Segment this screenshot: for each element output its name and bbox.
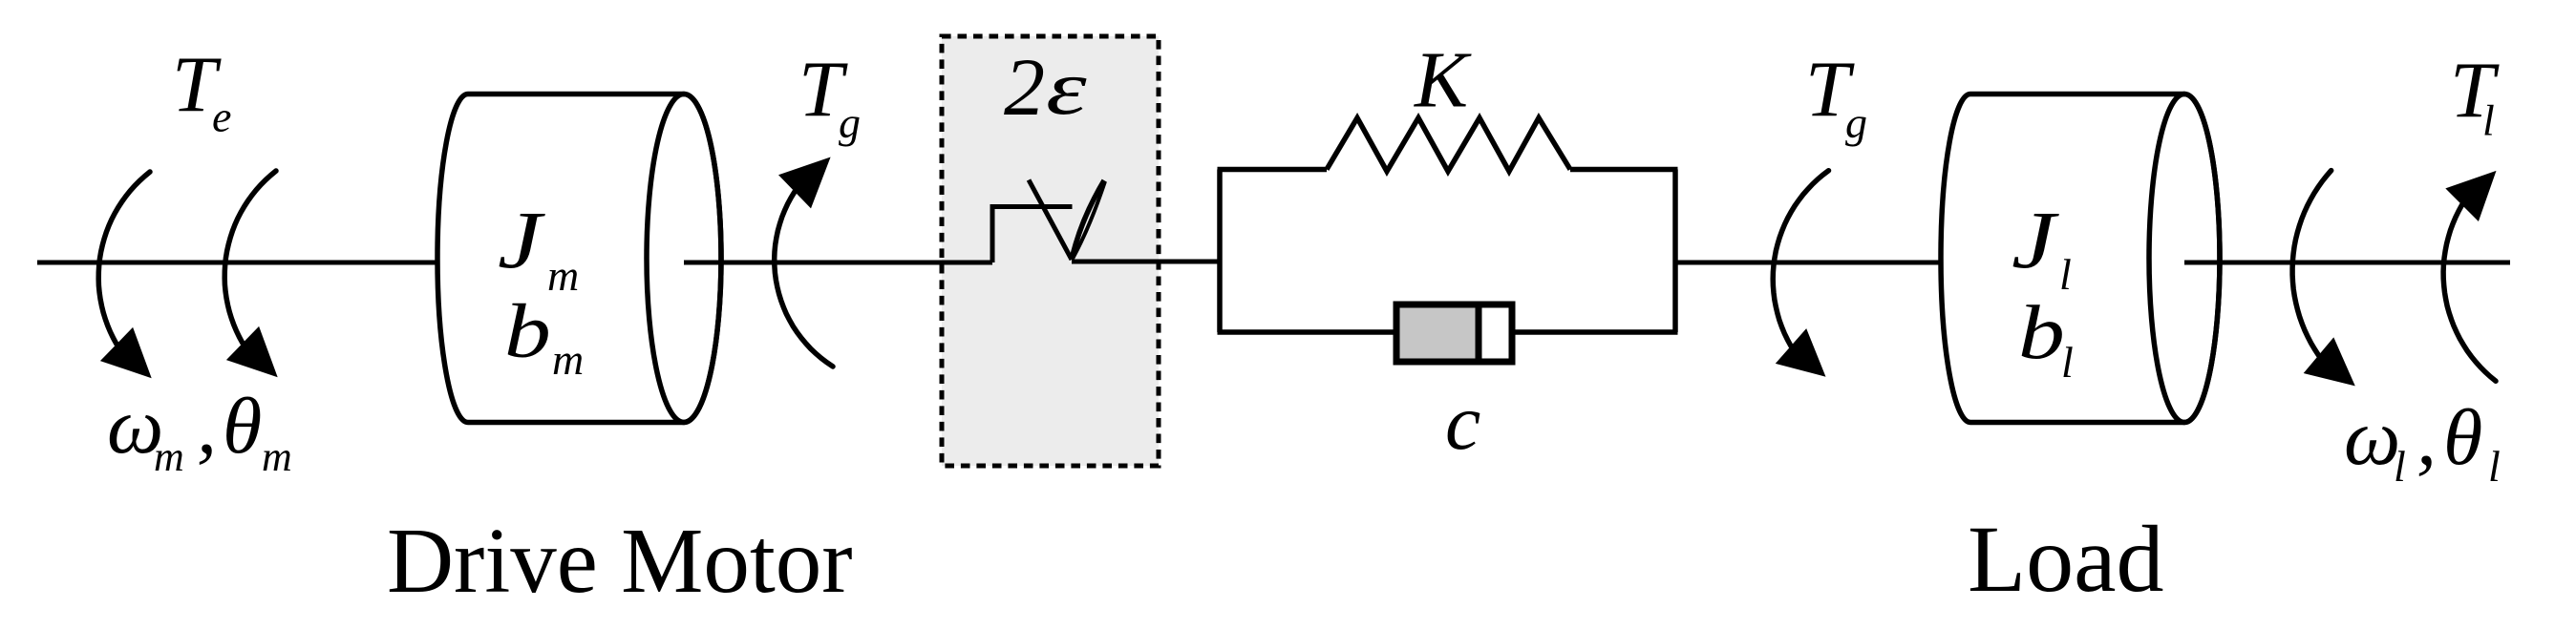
- svg-text:m: m: [154, 433, 184, 480]
- svg-text:,: ,: [197, 382, 217, 471]
- svg-text:l: l: [2488, 442, 2501, 491]
- svg-text:J: J: [498, 194, 545, 285]
- backlash zone dashed box: [942, 36, 1159, 466]
- svg-text:b: b: [504, 289, 551, 374]
- torque arrow Tl: [2443, 171, 2496, 381]
- svg-text:J: J: [2012, 194, 2059, 285]
- svg-text:ω: ω: [2344, 393, 2400, 482]
- svg-text:K: K: [1414, 36, 1472, 125]
- svg-text:2: 2: [1004, 41, 1045, 133]
- svg-text:g: g: [839, 98, 861, 147]
- spring-damper coupling frame: [1218, 170, 1678, 333]
- svg-text:θ: θ: [2443, 393, 2482, 482]
- torque arrow Tg motor side: [775, 157, 833, 367]
- svg-text:g: g: [1845, 98, 1867, 147]
- svg-text:b: b: [2018, 290, 2065, 375]
- damper c piston: [1396, 304, 1512, 362]
- svg-text:l: l: [2394, 442, 2406, 491]
- torque arrow Tg load side: [1773, 171, 1828, 377]
- wire: gear to spring-damper: [1072, 260, 1222, 264]
- spring K zigzag: [1327, 118, 1570, 172]
- load inertia cylinder: [1941, 94, 2220, 423]
- svg-text:θ: θ: [223, 382, 262, 471]
- svg-text:e: e: [212, 93, 231, 141]
- svg-text:m: m: [552, 335, 584, 384]
- svg-text:m: m: [262, 433, 292, 480]
- backlash (gear clearance) symbol: [992, 180, 1105, 263]
- wire: motor to gear shaft: [684, 261, 992, 265]
- svg-text:l: l: [2482, 96, 2495, 145]
- svg-text:,: ,: [2416, 393, 2437, 482]
- torque arrow omega_m arc 1: [98, 172, 152, 378]
- svg-text:Load: Load: [1968, 506, 2163, 612]
- svg-text:Drive Motor: Drive Motor: [387, 510, 853, 612]
- svg-text:c: c: [1445, 378, 1480, 467]
- wire: input shaft left segment: [37, 261, 437, 265]
- svg-text:ε: ε: [1046, 44, 1087, 131]
- svg-text:m: m: [547, 251, 579, 300]
- svg-text:l: l: [2061, 338, 2074, 387]
- drive motor inertia cylinder: [437, 94, 721, 423]
- torque arrow omega_m arc 2: [224, 171, 278, 377]
- wire: output shaft right segment: [2184, 261, 2510, 265]
- wire: spring-damper to load shaft: [1675, 261, 1971, 265]
- torque arrow omega_l: [2292, 171, 2355, 387]
